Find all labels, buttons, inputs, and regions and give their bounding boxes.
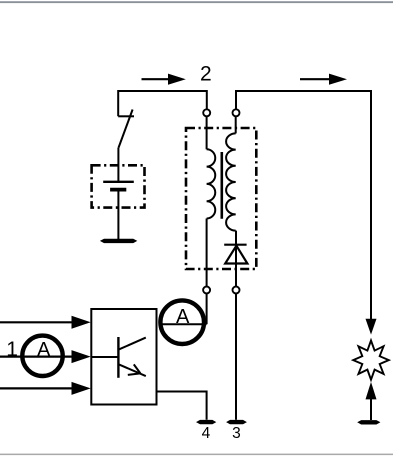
secondary winding L2: [226, 133, 236, 230]
ammeter A2: [160, 300, 204, 344]
switch S (ignition switch): [118, 110, 134, 148]
svg-text:A: A: [176, 306, 190, 328]
terminal node (primary bottom): [203, 287, 210, 294]
wire: switch to battery: [117, 148, 119, 182]
flow arrow (right): [300, 74, 347, 85]
terminal node (secondary bottom): [233, 287, 240, 294]
wire: control unit to ground 4: [157, 392, 207, 420]
input arrow bottom: [0, 382, 91, 395]
transistor Q1 collector: [119, 338, 146, 350]
transistor Q1 emitter with arrow: [119, 364, 146, 376]
ground 3: [226, 420, 247, 424]
wire: secondary terminal 4 to spark gap: [236, 91, 371, 319]
wire: spark gap to ground: [370, 399, 372, 421]
svg-text:4: 4: [202, 425, 211, 442]
top border line: [0, 1, 393, 3]
transistor Q1 base lead: [91, 356, 118, 358]
ground (spark gap): [357, 420, 380, 424]
spark gap arrow (up): [366, 382, 377, 400]
diode V1 cathode bar: [224, 244, 246, 246]
wire: terminal into secondary winding: [235, 116, 237, 134]
bottom border line: [0, 454, 393, 456]
svg-text:A: A: [37, 339, 51, 361]
svg-text:3: 3: [232, 425, 241, 442]
spark gap star: [353, 341, 389, 380]
ammeter A2 chord wire: [160, 323, 207, 325]
terminal node (primary top): [203, 109, 210, 116]
battery G1: [103, 182, 134, 190]
transformer core: [221, 152, 224, 219]
wire: primary bottom terminal down to ammeter chord: [206, 293, 208, 324]
wire: battery to ground: [117, 190, 119, 240]
control unit box: [91, 309, 156, 405]
svg-text:2: 2: [200, 63, 212, 86]
wire: switch top to primary terminal (terminal 15 run): [118, 91, 207, 116]
flow arrow 2 (left): [142, 74, 186, 85]
input arrow top: [0, 316, 91, 329]
wire: secondary bottom terminal to ground 3: [235, 293, 237, 420]
transistor Q1 base bar: [117, 337, 119, 378]
terminal node (secondary top): [233, 109, 240, 116]
ammeter A1: [22, 336, 62, 376]
wire: primary winding to bottom terminal: [206, 219, 208, 288]
ignition coil dash-dot enclosure: [186, 128, 256, 269]
svg-text:1: 1: [6, 338, 18, 361]
ground (battery): [100, 239, 137, 243]
battery dash-dot enclosure: [92, 165, 145, 207]
ground 4: [196, 420, 216, 424]
diode V1: [225, 246, 247, 264]
wire: terminal into primary winding: [206, 116, 208, 150]
wire: secondary winding through diode to bottom terminal: [235, 231, 237, 287]
input arrow middle (through ammeter A1): [0, 350, 91, 363]
primary winding L1: [207, 149, 216, 218]
spark gap arrow (down): [366, 319, 377, 335]
